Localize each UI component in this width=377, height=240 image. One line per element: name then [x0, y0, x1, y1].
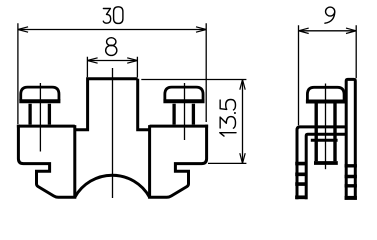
dimension 8 arrows [87, 58, 137, 63]
left platform top [17, 125, 75, 128]
dimension 9 extension lines [299, 25, 357, 125]
side view screw shank lines [316, 104, 335, 162]
side view right leg bottom bar [345, 196, 357, 200]
right screw head [165, 87, 203, 100]
dimension 8 text [106, 38, 117, 56]
right screw centerline [184, 83, 186, 140]
dimension 13.5 text [220, 100, 236, 137]
dimension 30 text [103, 7, 123, 24]
left screw head [21, 87, 59, 100]
side view left leg bottom bar [295, 195, 307, 199]
left screw shank [30, 104, 49, 125]
side view screw base bar [306, 100, 346, 104]
dimension 13.5 extension lines [141, 80, 246, 164]
side view left leg inner line and recess line [306, 134, 346, 199]
dimension 13.5 arrows [240, 80, 245, 164]
side view hanging box bottom [314, 161, 338, 165]
right platform top [150, 125, 209, 128]
side view hanging flange [311, 139, 338, 142]
dimension 9 text [325, 7, 335, 23]
dimension 9 arrows [299, 28, 357, 33]
dimension 8 line [87, 60, 137, 62]
side view platform top line with left fillet [297, 127, 346, 199]
dimension 30 line [18, 29, 206, 31]
right screw shank [174, 104, 193, 125]
side view screw head [307, 87, 344, 100]
dimension 30 arrows [18, 27, 206, 32]
dimension 13.5 line [242, 80, 244, 164]
front bottom arc cutout [75, 175, 150, 197]
front view outline right half [138, 79, 207, 198]
dimension 8 extension lines [87, 57, 137, 78]
front view outline left half [18, 79, 137, 198]
side view right leg rungs [345, 166, 357, 186]
dimension 30 extension lines [18, 23, 206, 124]
side view back plate and right leg edges [346, 79, 355, 199]
side view screw centerline [325, 84, 327, 170]
right screw base bar [163, 99, 204, 103]
side view left leg rungs [295, 164, 307, 185]
left screw base bar [19, 99, 60, 103]
left screw centerline [39, 83, 41, 152]
front view centerline [112, 68, 114, 198]
dimension 9 line [299, 30, 357, 32]
